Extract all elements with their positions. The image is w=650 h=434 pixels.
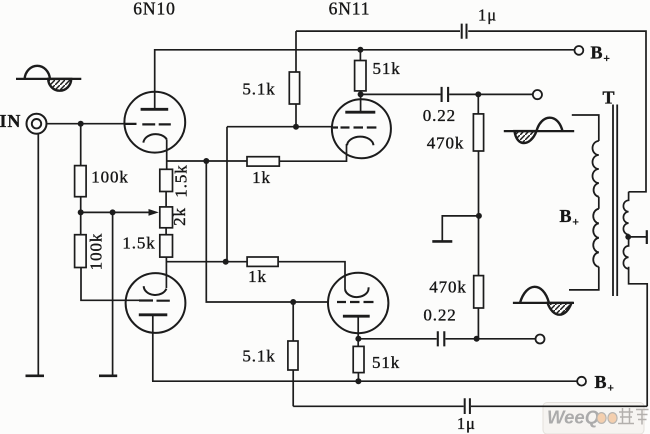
ground bar left xyxy=(26,374,45,377)
resistor R6 1k xyxy=(247,157,279,166)
wire: V1b plate lead xyxy=(152,315,154,381)
wire: B+ rail B (V1b plate line) xyxy=(152,380,577,382)
wire: B+ rail A (V1a plate line) xyxy=(155,50,575,110)
resistor R8 5.1k xyxy=(289,72,299,104)
transformer T1 secondary winding upper xyxy=(623,192,628,235)
transformer primary bottom lead xyxy=(569,267,599,290)
junction: V2b plate node xyxy=(355,336,361,342)
transformer T1 primary winding lower xyxy=(593,209,599,267)
svg-text:51k: 51k xyxy=(373,59,401,78)
svg-text:5.1k: 5.1k xyxy=(242,80,275,99)
wire: V2a grid coupling drop xyxy=(295,31,297,72)
wire: pot wiper line with arrow xyxy=(81,211,149,213)
V2a plate bar xyxy=(345,111,375,114)
V1a plate bar xyxy=(141,108,169,111)
svg-text:1k: 1k xyxy=(248,267,267,286)
svg-text:1μ: 1μ xyxy=(478,6,497,25)
svg-text:6N10: 6N10 xyxy=(133,0,176,18)
capacitor C3 0.22 xyxy=(438,331,445,346)
wire: V1a cathode lead down xyxy=(166,139,168,169)
wire: secondary tap stub xyxy=(628,236,647,238)
svg-text:470k: 470k xyxy=(427,134,465,153)
capacitor C1 1u xyxy=(462,24,467,39)
wire: top feedback line xyxy=(296,31,646,192)
junction: top output node xyxy=(475,91,481,97)
svg-text:B+: B+ xyxy=(560,206,580,229)
wire: R5 to V1b cathode xyxy=(165,257,167,288)
V1a cathode arc xyxy=(143,134,166,143)
output sine bottom xyxy=(513,287,574,315)
wire: 1k-2 to V2b cathode xyxy=(278,262,345,290)
resistor R7 1k xyxy=(247,257,278,266)
wire: V2a cathode lead xyxy=(279,144,346,161)
wire: input to grid of V1a xyxy=(47,123,125,125)
transformer T1 primary winding upper xyxy=(593,141,599,197)
wire: R10 to V2a plate xyxy=(360,91,362,113)
svg-text:51k: 51k xyxy=(372,353,400,372)
resistor R3 1.5k xyxy=(160,169,173,191)
wire: R3 to R4 xyxy=(165,192,167,207)
wire: V1a cathode line to 1k xyxy=(167,160,247,162)
wire: 5.1k-2 top lead xyxy=(292,302,294,341)
junction: V2a grid node xyxy=(293,124,299,130)
svg-text:100k: 100k xyxy=(87,233,106,271)
resistor R5 1.5k xyxy=(160,235,173,257)
input jack terminal xyxy=(27,114,47,134)
wire: R2 to V1b grid xyxy=(81,268,139,301)
wire: R1 to tap junction xyxy=(80,197,82,235)
ground bar middle-left xyxy=(99,374,117,377)
terminal: bottom output xyxy=(536,335,545,344)
wire: ground drop from wiper node xyxy=(112,212,114,376)
wire: 100k chain upper lead xyxy=(80,124,82,166)
junction: bottom output node xyxy=(474,336,480,342)
V1b cathode arc xyxy=(144,286,167,295)
wire: cross-couple left drop xyxy=(226,127,228,262)
junction: R11 bottom xyxy=(355,378,361,384)
junction: wiper-ground node xyxy=(110,209,116,215)
terminal B+ top xyxy=(575,46,584,55)
svg-text:2k: 2k xyxy=(170,207,189,226)
V1b plate bar xyxy=(139,313,168,316)
wire: R8 to V2a grid xyxy=(295,104,297,127)
V2b cathode arc xyxy=(345,287,369,297)
wire: coupling to C3 xyxy=(358,338,535,340)
wire: ground stub xyxy=(442,216,479,241)
svg-text:B+: B+ xyxy=(591,43,611,66)
triode V2b 6N11 envelope xyxy=(328,273,388,333)
triode V1b 6N10 envelope xyxy=(126,273,186,333)
junction: phase splitter node A xyxy=(203,158,209,164)
svg-text:B+: B+ xyxy=(595,372,615,395)
transformer primary top lead xyxy=(572,115,599,141)
ground bar middle xyxy=(432,240,452,243)
V2b plate bar xyxy=(343,315,370,318)
svg-text:WeeQ: WeeQ xyxy=(547,407,600,428)
wire: right feedback riser xyxy=(629,267,648,407)
svg-text:6N11: 6N11 xyxy=(329,0,371,18)
svg-text:100k: 100k xyxy=(91,168,129,187)
wire: 470k chain xyxy=(477,94,479,338)
svg-text:5.1k: 5.1k xyxy=(242,347,275,366)
svg-text:1.5k: 1.5k xyxy=(172,164,191,197)
resistor R4 2k pot xyxy=(160,207,173,228)
svg-text:1.5k: 1.5k xyxy=(122,233,155,252)
wire: V2b plate lead xyxy=(357,316,359,346)
wire: coupling to C2 xyxy=(361,93,533,95)
triode V1a 6N10 envelope xyxy=(124,92,185,153)
junction: splitter node B xyxy=(223,259,229,265)
junction: 470k midpoint xyxy=(476,213,482,219)
wire: cross-couple right drop xyxy=(206,161,328,302)
terminal: top output xyxy=(533,90,542,99)
wire: primary mid xyxy=(598,197,600,209)
resistor R12 470k xyxy=(473,114,483,151)
junction: V2a plate node xyxy=(358,91,364,97)
resistor R2 100k xyxy=(75,235,87,268)
transformer core xyxy=(613,105,617,297)
junction: secondary tap xyxy=(625,234,631,240)
junction: V2b grid node xyxy=(290,299,296,305)
wire: R11 to B+ rail B xyxy=(357,373,359,382)
wire: V2a grid line xyxy=(227,126,333,128)
watermark box xyxy=(543,403,649,434)
svg-text:1k: 1k xyxy=(252,168,271,187)
resistor R1 100k xyxy=(75,166,87,197)
svg-text:1μ: 1μ xyxy=(457,414,476,433)
triode V2a 6N11 envelope xyxy=(332,99,391,158)
wire: R9 to bottom feedback line xyxy=(292,370,294,406)
junction: divider tap xyxy=(78,209,84,215)
output sine top (inverted phase) xyxy=(504,118,574,143)
resistor R9 5.1k xyxy=(288,341,298,370)
svg-text:0.22: 0.22 xyxy=(423,306,456,325)
V2b grid dashes xyxy=(337,301,374,303)
input sine symbol xyxy=(16,66,81,91)
wire: V1b cathode line to 1k-2 xyxy=(166,261,247,263)
junction: input node xyxy=(78,121,84,127)
svg-text:IN: IN xyxy=(0,111,21,131)
V2a cathode arc xyxy=(347,137,374,146)
tap terminal bar xyxy=(646,230,648,244)
wire: R4 to R5 xyxy=(165,228,167,235)
capacitor C4 1u xyxy=(465,398,470,414)
wire: 51k-1 top lead xyxy=(359,50,361,61)
junction: 51k top xyxy=(357,47,363,53)
arrowhead to 2k pot xyxy=(149,209,159,216)
V1a grid dashes xyxy=(125,123,171,126)
wire: bottom feedback line xyxy=(293,405,647,407)
resistor R13 470k xyxy=(474,276,484,308)
resistor R10 51k xyxy=(355,61,366,91)
V1b grid dashes xyxy=(139,299,170,301)
V2a grid dashes xyxy=(333,126,376,128)
terminal B+ bottom xyxy=(577,377,586,386)
svg-text:0.22: 0.22 xyxy=(423,106,456,125)
transformer T1 secondary winding lower xyxy=(623,235,628,269)
wire: input ground drop xyxy=(37,134,39,376)
capacitor C2 0.22 xyxy=(442,87,449,102)
resistor R11 51k xyxy=(353,346,364,372)
svg-text:470k: 470k xyxy=(429,278,467,297)
